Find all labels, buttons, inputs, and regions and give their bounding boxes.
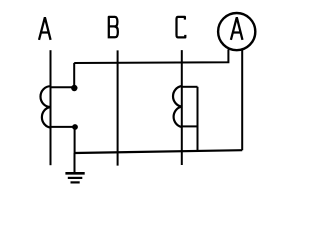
wire: ground drop (74, 153, 76, 173)
wire: riser from TA1 top tap to ammeter wire (73, 63, 75, 88)
wire: TA1 top tap (51, 86, 75, 88)
current transformer TA1 secondary winding (phase A) (40, 86, 50, 127)
phase label B (109, 17, 118, 37)
ammeter PA1 circle (218, 13, 255, 50)
wire: TA2 right vertical link (197, 87, 199, 151)
wire: ammeter right lead down to common wire (241, 49, 243, 150)
ground (65, 173, 84, 182)
current transformer TA2 secondary winding (phase C) (173, 86, 182, 127)
phase conductor A (50, 50, 52, 165)
ammeter PA1 letter A (231, 17, 242, 39)
phase label A (39, 17, 50, 39)
node: junction dot TA1 top tap (71, 85, 77, 91)
phase conductor C (181, 50, 183, 165)
wire: TA2 top tap (182, 86, 198, 88)
wire: TA1 bottom tap (51, 126, 76, 128)
phase conductor B (117, 50, 119, 165)
wire: drop from TA1 bottom tap to common wire (74, 127, 76, 153)
node: junction dot TA1 bottom tap (72, 124, 78, 130)
phase label C (177, 17, 186, 38)
wire: TA2 bottom tap (182, 125, 198, 127)
wire: bottom common wire (75, 150, 243, 153)
wire: top wire to ammeter left terminal (74, 50, 228, 64)
